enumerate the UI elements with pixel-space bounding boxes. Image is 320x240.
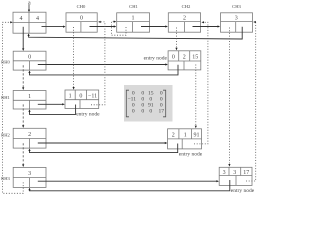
svg-text:4: 4 (20, 16, 23, 22)
matrix gray background (124, 85, 173, 122)
row header RH3 box (13, 167, 46, 187)
wire RH3.right to N4 (38, 180, 218, 182)
wire N1.right loop back to RH0 (30, 65, 179, 75)
matrix right bracket (163, 90, 166, 117)
svg-text:4: 4 (36, 16, 39, 22)
svg-text:3: 3 (223, 170, 226, 176)
matrix left bracket (126, 90, 129, 117)
svg-text:0: 0 (149, 109, 152, 115)
svg-text:3: 3 (235, 16, 238, 22)
svg-text:CH1: CH1 (129, 4, 138, 9)
svg-text:91: 91 (194, 133, 200, 139)
wire head.right to CH0 (42, 26, 65, 28)
svg-text:2: 2 (183, 55, 186, 61)
wire N2.down loop back to CH0 (dotted) (91, 22, 105, 105)
svg-text:1: 1 (184, 133, 187, 139)
svg-text:2: 2 (28, 132, 31, 138)
svg-text:entry node: entry node (76, 112, 100, 118)
svg-text:3: 3 (233, 170, 236, 176)
svg-text:0: 0 (172, 55, 175, 61)
matrix values (128, 91, 165, 115)
wire head.down to RH0 (22, 27, 24, 50)
wire CH1.next to CH2 (141, 26, 166, 28)
row header RH1 box (13, 91, 46, 110)
column header CH3 box (221, 13, 253, 32)
wire RH1.right to N2 (38, 103, 64, 105)
wire RH3.down loop back to head (dotted) (3, 22, 24, 193)
wire RH2.right to N3 (38, 142, 166, 144)
wire RH1.down to RH2 (dashed) (22, 104, 24, 126)
head node box (13, 12, 46, 33)
svg-text:1: 1 (132, 16, 135, 22)
wire N2.right loop back to RH1 (30, 105, 76, 115)
row header RH2 box (13, 128, 46, 148)
svg-text:0: 0 (28, 55, 31, 61)
wire N4.down loop back to CH3 (dotted) (246, 22, 256, 181)
svg-text:3: 3 (28, 171, 31, 177)
svg-text:entry node: entry node (231, 188, 255, 194)
svg-text:1: 1 (69, 94, 72, 100)
wire N3.right loop back to RH2 (30, 144, 178, 153)
wire RH0.down to RH1 (dashed) (22, 65, 24, 88)
svg-text:a: a (28, 0, 31, 6)
wire CH1.down self loop (dotted) (111, 22, 126, 36)
svg-text:17: 17 (243, 170, 249, 176)
svg-text:0: 0 (141, 109, 144, 115)
wire CH2.down to N1 (dotted) (176, 28, 178, 49)
svg-text:entry node: entry node (179, 151, 203, 157)
entry node N3 (2,2,91) box (168, 129, 202, 149)
entry node N1 (0,2,15) box (168, 51, 201, 70)
wire CH0.down to N2 (dotted) (73, 27, 75, 88)
wire CH0.next to CH1 (90, 26, 115, 28)
svg-text:entry node: entry node (144, 55, 168, 61)
svg-text:15: 15 (192, 55, 198, 61)
svg-text:2: 2 (172, 133, 175, 139)
svg-text:CH3: CH3 (232, 4, 241, 9)
wire CH3.down to N4 (dotted) (228, 28, 230, 165)
svg-text:1: 1 (28, 94, 31, 100)
entry node N4 (3,3,17) box (219, 167, 252, 185)
svg-text:CH0: CH0 (77, 4, 86, 9)
svg-text:17: 17 (159, 109, 165, 115)
column header CH1 box (117, 13, 150, 32)
svg-text:0: 0 (79, 94, 82, 100)
wire CH2.next to CH3 (193, 26, 219, 28)
row header RH0 box (13, 51, 46, 70)
wire CH3.next loop back to head (29, 27, 243, 39)
column header CH0 box (66, 13, 97, 32)
svg-text:−11: −11 (88, 94, 97, 100)
column header CH2 box (168, 13, 200, 32)
svg-text:CH2: CH2 (182, 4, 191, 9)
wire RH0.right to N1 (38, 64, 167, 66)
svg-text:2: 2 (183, 16, 186, 22)
wire N1.down to N3 (dotted) (195, 65, 197, 127)
wire a to head (28, 5, 30, 11)
wire N4.right loop back to RH3 (30, 180, 230, 191)
wire RH2.down to RH3 (dashed) (22, 143, 24, 165)
wire N3.down loop back to CH2 (dotted) (194, 22, 208, 144)
entry node N2 (1,0,-11) box (65, 90, 99, 109)
svg-text:0: 0 (132, 109, 135, 115)
svg-text:0: 0 (80, 16, 83, 22)
